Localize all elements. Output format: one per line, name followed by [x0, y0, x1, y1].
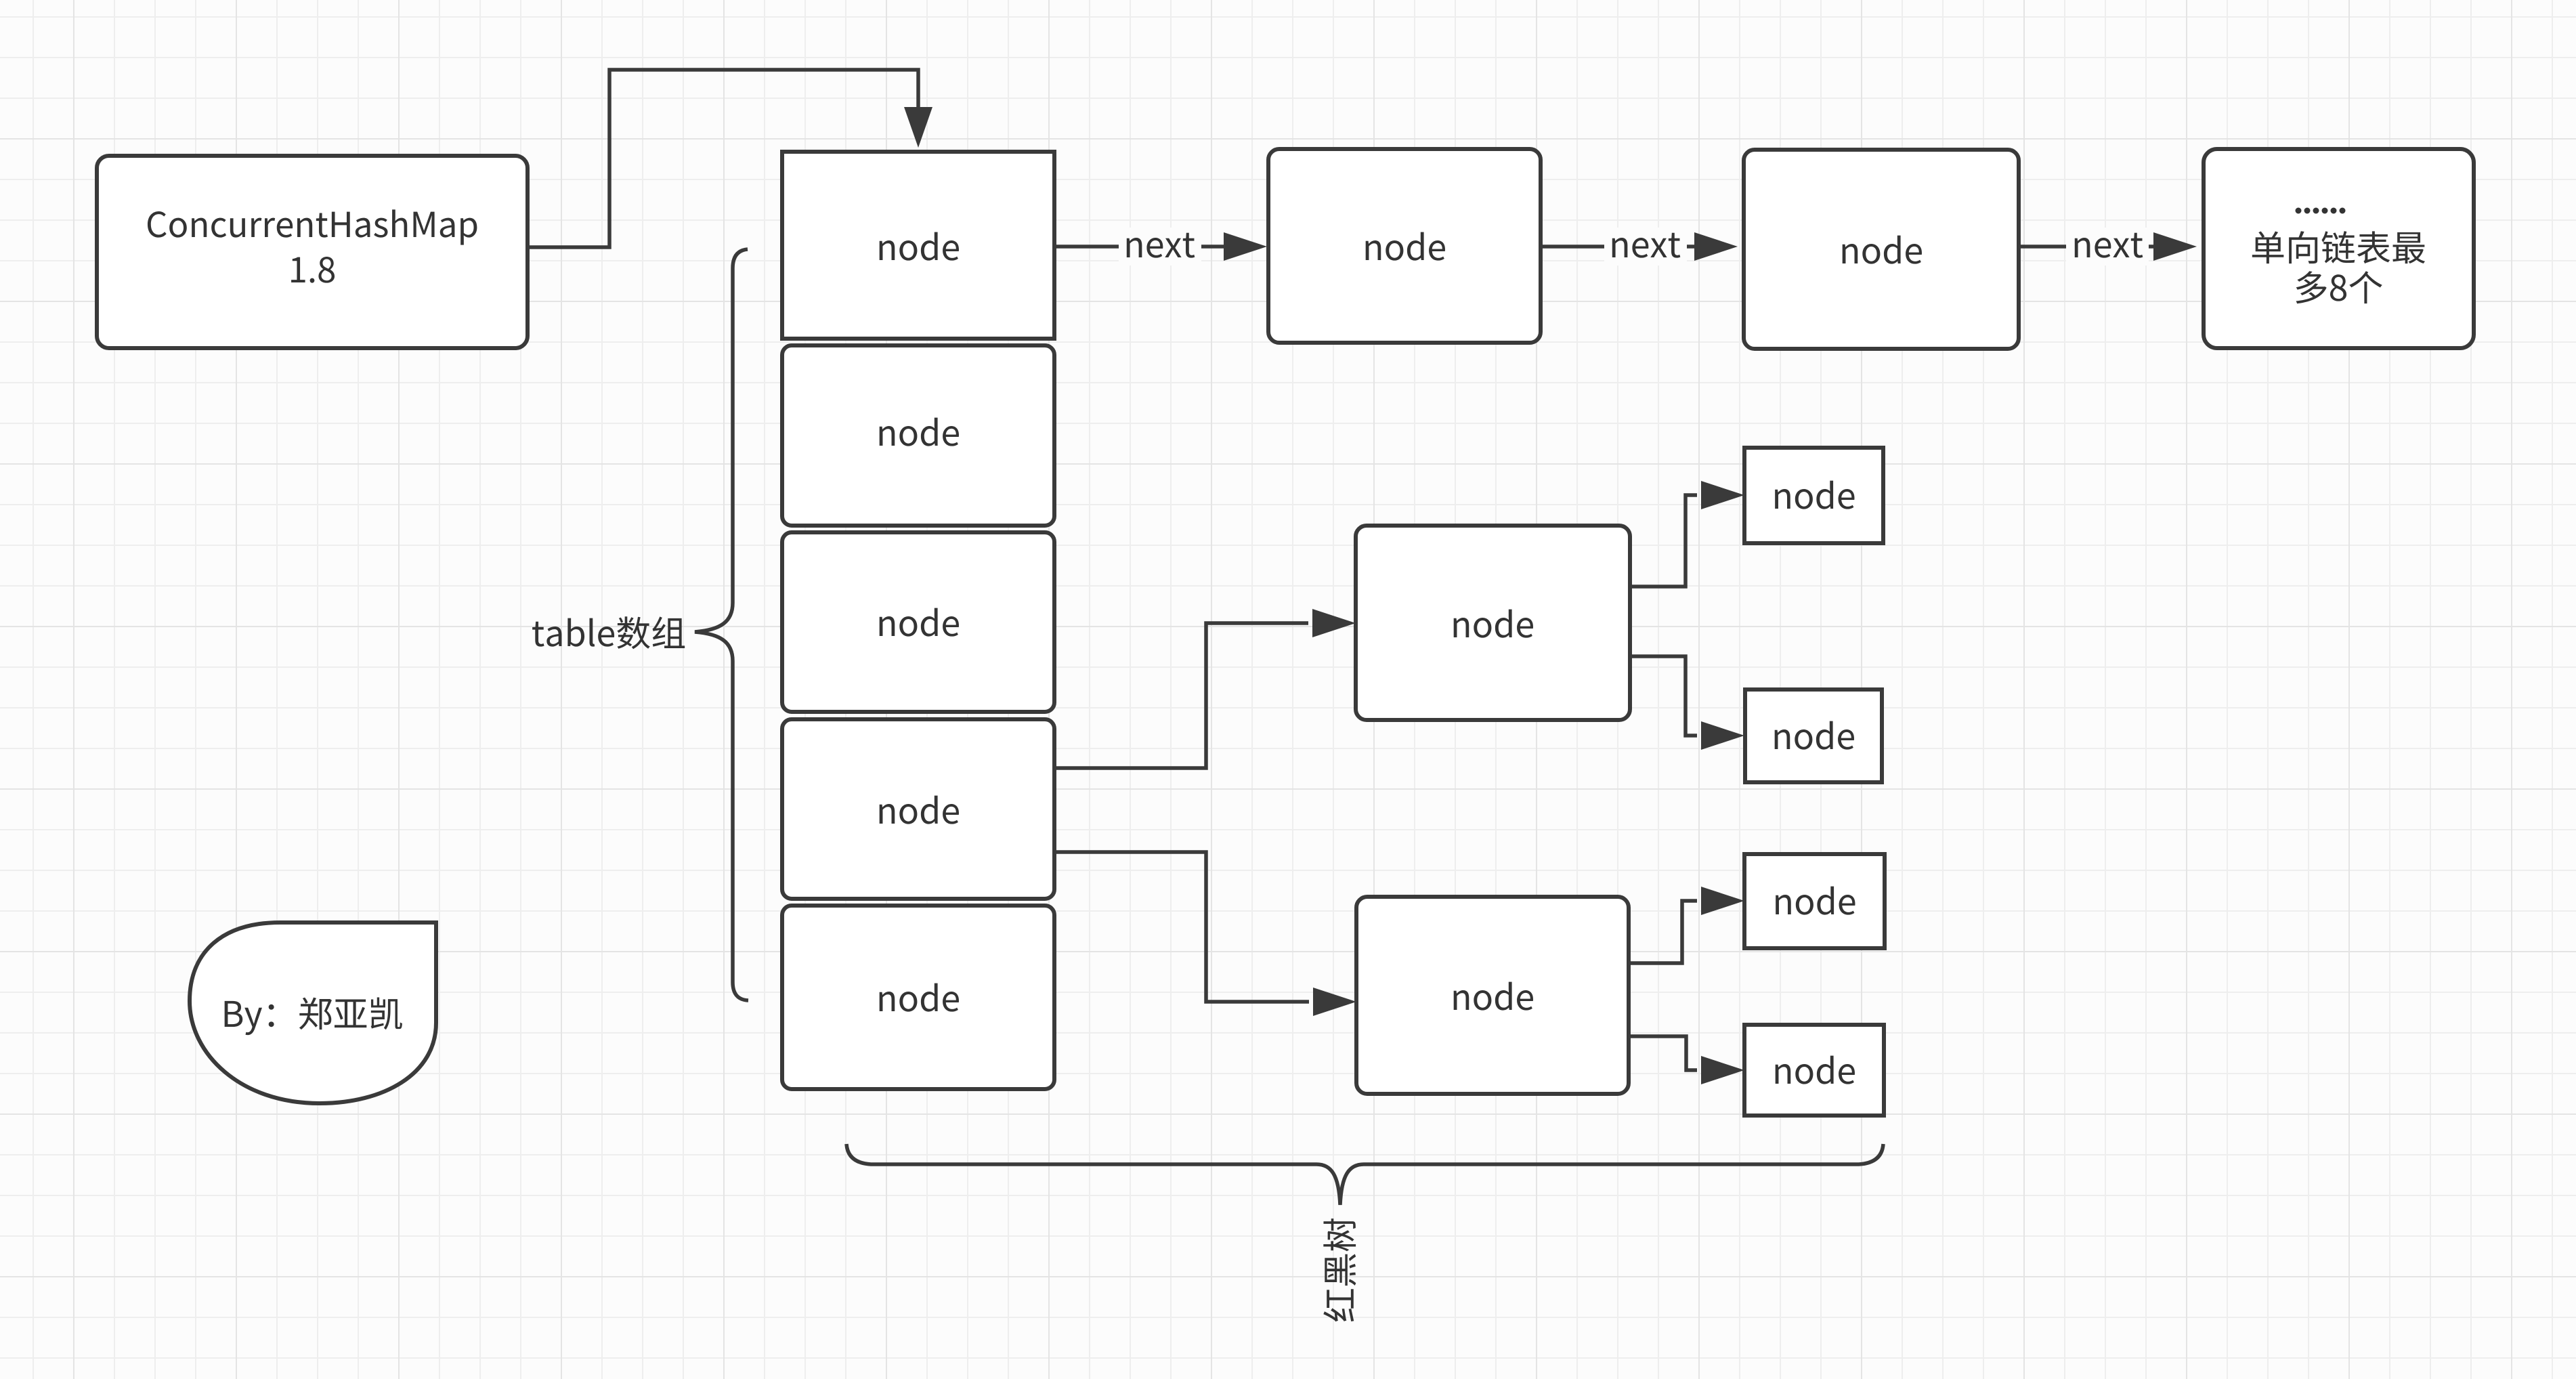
- label node (tree node B): [1454, 982, 1533, 1011]
- label node (table cell 4): [880, 983, 959, 1012]
- list node 2: [1268, 149, 1541, 343]
- label next #1: [1127, 233, 1195, 258]
- arrowhead into leaf 4: [1701, 1056, 1744, 1084]
- wire tree A -> leaf 2: [1630, 656, 1697, 736]
- label node (leaf 4): [1776, 1056, 1855, 1084]
- label By：郑亚凯: [225, 998, 402, 1036]
- arrowhead into list node 2: [1224, 232, 1267, 261]
- box: ConcurrentHashMap 1.8: [97, 156, 528, 348]
- table cell node[2]: [782, 532, 1054, 712]
- arrowhead into table[0]: [904, 107, 932, 148]
- wire list2 -> next arrow: [1541, 245, 1694, 249]
- ellipsis dots ……: [2296, 208, 2302, 214]
- label next #3: [2075, 233, 2143, 258]
- label 多8个: [2296, 271, 2382, 303]
- wire tree A -> leaf 1: [1630, 495, 1697, 587]
- label node (table cell 2): [880, 608, 959, 637]
- table cell node[1]: [782, 345, 1054, 526]
- label ConcurrentHashMap: [148, 209, 477, 245]
- table cell node[3]: [782, 719, 1054, 899]
- label 红黑树 (rotated): [1323, 1218, 1356, 1321]
- label node (list node 2): [1366, 232, 1445, 261]
- leaf node box 3: [1744, 854, 1885, 948]
- label node (leaf 2): [1775, 721, 1854, 750]
- label node (tree node A): [1454, 610, 1533, 638]
- box: linked list max 8 note: [2204, 149, 2474, 348]
- arrowhead into leaf 2: [1701, 721, 1744, 750]
- label node (table cell 0): [880, 232, 959, 261]
- arrowhead into list node 3: [1694, 232, 1738, 261]
- wire node0 -> next arrow: [1054, 245, 1224, 249]
- arrowhead into leaf 1: [1701, 481, 1744, 509]
- table cell node[0]: [782, 152, 1054, 339]
- white backing for label next #3: [2066, 228, 2149, 266]
- leaf node box 4: [1744, 1025, 1884, 1116]
- label node (leaf 3): [1776, 887, 1855, 915]
- white backing for label next #2: [1604, 228, 1687, 266]
- wire tree B -> leaf 4: [1629, 1036, 1697, 1070]
- label next #2: [1612, 233, 1681, 258]
- list node 3: [1744, 150, 2019, 349]
- wire list3 -> next arrow: [2019, 245, 2153, 249]
- label node (leaf 1): [1775, 481, 1854, 509]
- tree node B: [1356, 897, 1629, 1094]
- leaf node box 1: [1744, 448, 1883, 543]
- label node (table cell 3): [880, 796, 959, 824]
- wire tree B -> leaf 3: [1629, 901, 1697, 963]
- wire table[3] -> tree node B: [1054, 852, 1309, 1002]
- bottom curly brace (red-black tree): [846, 1144, 1883, 1205]
- wire CHM to table[0] top: [528, 70, 918, 247]
- tree node A: [1356, 526, 1630, 720]
- arrowhead into tree node A: [1312, 609, 1356, 637]
- left curly brace (table array): [695, 249, 748, 1000]
- arrowhead into ellipsis box: [2153, 232, 2197, 261]
- white backing for label next #1: [1119, 228, 1201, 266]
- label node (table cell 1): [880, 418, 959, 446]
- arrowhead into leaf 3: [1701, 887, 1744, 915]
- table cell node[4]: [782, 906, 1054, 1089]
- label 1.8: [291, 257, 335, 283]
- label table数组: [532, 616, 685, 649]
- author blob shape: [190, 922, 436, 1103]
- wire table[3] -> tree node A: [1054, 623, 1308, 768]
- arrowhead into tree node B: [1313, 988, 1356, 1016]
- label 单向链表最: [2252, 231, 2425, 263]
- leaf node box 2: [1745, 689, 1882, 782]
- label node (list node 3): [1843, 236, 1922, 264]
